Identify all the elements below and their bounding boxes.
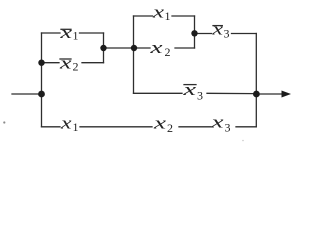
svg-text:x: x [152, 3, 165, 22]
svg-text:x: x [182, 80, 197, 99]
svg-text:2: 2 [165, 45, 171, 59]
svg-text:x: x [152, 113, 166, 132]
svg-text:1: 1 [73, 120, 79, 134]
svg-text:2: 2 [167, 121, 173, 135]
svg-text:3: 3 [224, 26, 230, 40]
svg-text:2: 2 [73, 60, 79, 74]
svg-text:x: x [58, 53, 72, 72]
svg-text:x: x [59, 23, 73, 42]
svg-text:x: x [60, 114, 73, 133]
svg-text:x: x [210, 113, 224, 132]
svg-text:1: 1 [165, 9, 171, 23]
svg-text:1: 1 [73, 29, 79, 43]
svg-text:3: 3 [197, 88, 203, 102]
svg-text:3: 3 [225, 121, 231, 135]
svg-text:x: x [149, 38, 163, 57]
svg-text:x: x [211, 20, 224, 39]
